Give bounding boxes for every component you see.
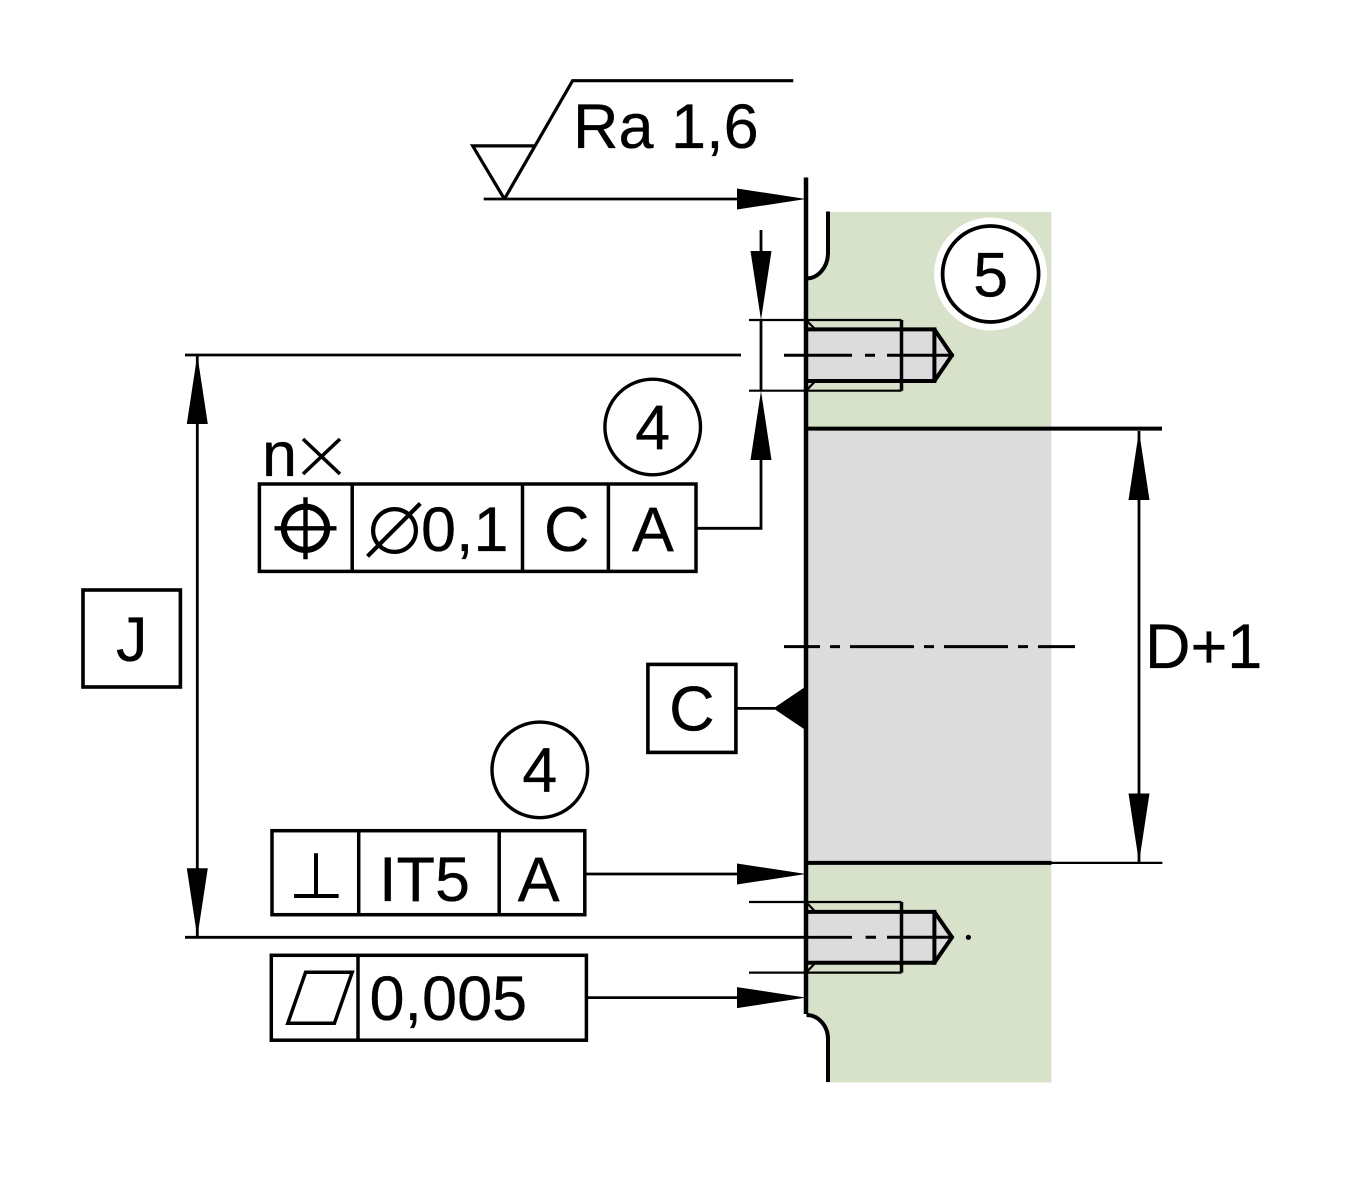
bore bottom edge line (thin extension) bbox=[1052, 862, 1163, 864]
top undercut notch white relief bbox=[806, 210, 827, 277]
top undercut notch outline bbox=[806, 212, 828, 279]
svg-text:0,1: 0,1 bbox=[421, 495, 509, 565]
top screw body outline bbox=[807, 327, 953, 383]
svg-text:J: J bbox=[116, 605, 148, 675]
D+1 arrow up bbox=[1129, 431, 1150, 500]
flatness leader bbox=[586, 996, 745, 999]
flatness symbol parallelogram bbox=[288, 972, 352, 1023]
top screw tapped hole thread crest bottom bbox=[749, 390, 902, 392]
callout circle 5 white halo bbox=[934, 218, 1047, 331]
svg-text:A: A bbox=[632, 495, 674, 565]
bottom screw tapped hole thread crest bottom bbox=[749, 971, 902, 973]
surface finish leader arrow bbox=[737, 189, 806, 210]
svg-text:IT5: IT5 bbox=[379, 845, 470, 915]
bottom undercut notch outline bbox=[807, 1015, 829, 1082]
callout circle 5 bbox=[943, 226, 1039, 322]
svg-text:C: C bbox=[544, 495, 590, 565]
surface finish leader line bbox=[484, 198, 760, 201]
datum C box bbox=[648, 664, 736, 752]
callout circle 4 upper bbox=[605, 379, 701, 475]
top screw tapped hole thread crest top bbox=[749, 319, 902, 321]
bottom screw entry chamfer upper bbox=[807, 903, 816, 912]
top screw centerline bbox=[784, 354, 954, 357]
svg-text:D+1: D+1 bbox=[1145, 612, 1262, 682]
J dimension bottom extension line bbox=[185, 936, 852, 939]
green housing section (bottom) bbox=[808, 864, 1051, 1083]
J label box bbox=[83, 590, 180, 687]
position frame leader bbox=[696, 455, 761, 528]
top screw entry chamfer lower bbox=[807, 381, 816, 390]
J dimension top extension line bbox=[185, 354, 741, 357]
bottom undercut notch white relief bbox=[806, 1016, 827, 1084]
surface finish symbol bbox=[473, 81, 794, 199]
perpendicularity leader bbox=[585, 873, 745, 876]
top screw entry chamfer upper bbox=[807, 321, 816, 330]
datum C filled triangle bbox=[773, 686, 806, 730]
bore centerline bbox=[784, 645, 1075, 648]
bottom screw body fill bbox=[806, 913, 952, 963]
svg-text:C: C bbox=[669, 675, 715, 745]
J dimension arrow up bbox=[187, 355, 208, 424]
callout circle 4 lower bbox=[492, 722, 588, 818]
position symbol bbox=[275, 497, 337, 559]
thread stub dimension upper stem bbox=[760, 230, 763, 258]
flatness frame bbox=[271, 955, 586, 1040]
flange front face line bbox=[804, 178, 809, 1015]
thread stub dimension upper arrow (down) bbox=[751, 251, 772, 320]
svg-text:4: 4 bbox=[522, 736, 557, 806]
green housing section (top) bbox=[808, 212, 1051, 429]
perpendicularity leader arrow bbox=[737, 864, 806, 885]
gray bore section bbox=[808, 429, 1051, 864]
bottom screw body outline bbox=[807, 910, 953, 965]
diameter symbol bbox=[368, 504, 421, 557]
bottom screw entry chamfer lower bbox=[807, 963, 816, 972]
bottom screw tapped hole end line bbox=[900, 902, 904, 973]
bottom screw tapped hole thread crest top bbox=[749, 901, 902, 903]
J dimension arrow down bbox=[187, 868, 208, 937]
D+1 dimension line bbox=[1138, 431, 1141, 863]
perpendicularity frame bbox=[272, 831, 585, 915]
bottom screw centerline end dot bbox=[966, 935, 971, 940]
D+1 arrow down bbox=[1129, 794, 1150, 863]
bore top edge line bbox=[806, 427, 1162, 431]
bore bottom edge line (thick part) bbox=[806, 861, 1052, 865]
svg-text:0,005: 0,005 bbox=[370, 964, 528, 1034]
position frame leader arrow (up) bbox=[751, 391, 772, 460]
svg-text:n: n bbox=[262, 420, 297, 490]
flatness leader arrow bbox=[737, 987, 806, 1008]
bottom screw centerline dashes bbox=[866, 936, 953, 939]
top screw tapped hole end line bbox=[900, 320, 904, 391]
svg-text:5: 5 bbox=[973, 240, 1008, 310]
J dimension line bbox=[196, 355, 199, 937]
svg-text:Ra 1,6: Ra 1,6 bbox=[573, 92, 759, 162]
datum C leader bbox=[736, 707, 775, 710]
n x cross symbol bbox=[303, 439, 340, 474]
svg-text:A: A bbox=[518, 845, 560, 915]
perpendicularity symbol bbox=[294, 853, 339, 896]
thread stub dimension line between arrows bbox=[760, 320, 763, 391]
position tolerance frame bbox=[259, 484, 696, 571]
svg-text:4: 4 bbox=[635, 393, 670, 463]
top screw body fill bbox=[806, 330, 952, 381]
